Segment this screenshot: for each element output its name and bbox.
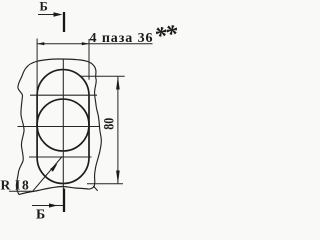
svg-text:Б: Б [40,0,48,14]
leader arrowhead R18 [50,164,57,172]
section line B top stroke [63,12,65,32]
vertical centerline [62,59,64,189]
dimension 36: dimension line with text shelf [37,43,152,45]
slot obround left straight side [36,96,38,158]
dimension 36: left arrowhead [37,42,44,45]
freehand outline tail bottom-right [93,186,97,191]
leader line R18 [33,156,62,190]
outer freehand part outline (wavy blob) [16,59,101,195]
dimension 80: bottom extension line [87,183,123,185]
section arrow top [38,14,55,16]
dimension 36: right extension line [88,39,90,80]
horizontal centerline main [18,126,101,128]
center hole circle d36 [37,99,89,151]
section line B bottom stroke [63,189,65,213]
svg-text:Б: Б [36,208,45,221]
section arrow bottom [32,205,64,207]
dimension 80: top arrowhead [116,76,120,89]
svg-text:RI8: RI8 [1,178,31,193]
slot obround bottom arc R18 [37,158,89,184]
dimension 36: right arrowhead [82,42,89,45]
slot obround right straight side [88,96,90,158]
dimension 36: left extension line [36,39,38,96]
top arc centerline [30,94,97,96]
dimension 80: top extension line [80,75,125,77]
svg-text:80: 80 [100,118,117,130]
paper background [0,0,178,220]
slot obround top arc R18 [37,70,89,96]
bottom arc centerline [29,156,92,158]
label R18 underline [9,190,33,192]
dimension 80: vertical dimension line [117,76,119,184]
svg-text:4 паза 36: 4 паза 36 [90,31,153,46]
dimension 80: bottom arrowhead [116,171,120,184]
